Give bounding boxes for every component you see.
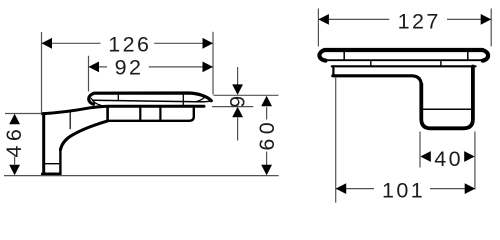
svg-text:60: 60 [255,118,279,151]
svg-text:101: 101 [382,179,425,203]
svg-text:46: 46 [2,125,26,158]
svg-text:126: 126 [108,33,151,57]
svg-text:127: 127 [398,9,441,33]
svg-text:92: 92 [115,56,144,80]
svg-text:9: 9 [225,96,249,108]
svg-text:40: 40 [434,147,463,171]
